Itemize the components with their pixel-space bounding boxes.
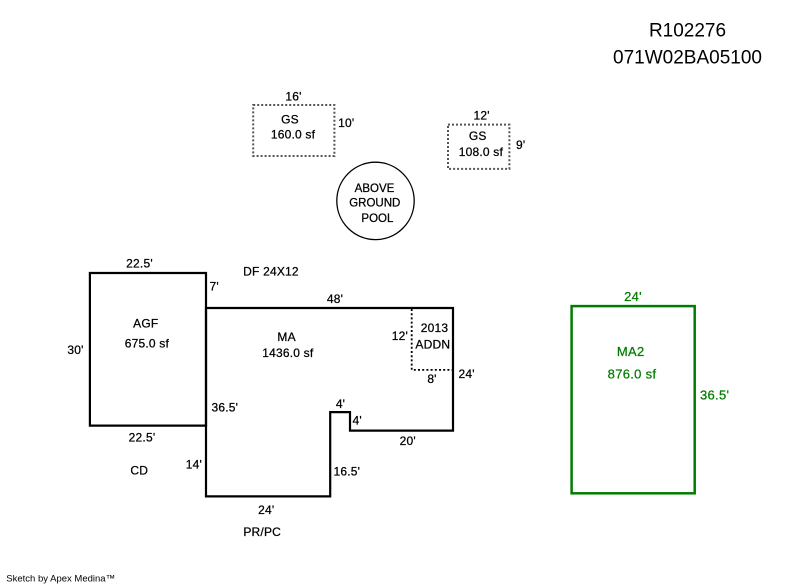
svg-text:GS: GS xyxy=(281,113,299,127)
svg-text:22.5': 22.5' xyxy=(126,257,153,271)
svg-text:4': 4' xyxy=(336,397,345,411)
svg-text:876.0 sf: 876.0 sf xyxy=(608,366,657,381)
above ground pool circle xyxy=(337,162,414,239)
svg-text:POOL: POOL xyxy=(361,213,394,225)
MA2 green building outline xyxy=(572,306,695,493)
svg-text:2013: 2013 xyxy=(421,321,449,335)
svg-text:ABOVE: ABOVE xyxy=(355,183,395,195)
svg-text:16.5': 16.5' xyxy=(333,465,360,479)
svg-text:48': 48' xyxy=(327,292,343,306)
svg-text:14': 14' xyxy=(186,458,202,472)
svg-text:R102276: R102276 xyxy=(649,21,726,42)
svg-text:36.5': 36.5' xyxy=(211,401,238,415)
svg-text:36.5': 36.5' xyxy=(700,388,729,403)
svg-text:30': 30' xyxy=(67,343,83,357)
svg-text:10': 10' xyxy=(338,116,354,130)
AGF garage outline xyxy=(90,273,206,426)
svg-text:675.0 sf: 675.0 sf xyxy=(125,336,170,350)
svg-text:22.5': 22.5' xyxy=(129,431,156,445)
svg-text:24': 24' xyxy=(459,367,475,381)
svg-text:Sketch by Apex Medina™: Sketch by Apex Medina™ xyxy=(6,574,115,585)
MA main area outline xyxy=(206,308,453,496)
svg-text:12': 12' xyxy=(473,109,489,123)
svg-text:108.0 sf: 108.0 sf xyxy=(459,145,504,159)
svg-text:8': 8' xyxy=(427,372,436,386)
svg-text:071W02BA05100: 071W02BA05100 xyxy=(613,47,762,68)
svg-text:GROUND: GROUND xyxy=(349,198,400,210)
svg-text:24': 24' xyxy=(258,503,274,517)
svg-text:MA: MA xyxy=(277,330,295,344)
2013 addition dotted boundary xyxy=(412,309,453,370)
svg-text:4': 4' xyxy=(353,414,362,428)
svg-text:20': 20' xyxy=(400,434,416,448)
svg-text:7': 7' xyxy=(210,280,219,294)
svg-text:GS: GS xyxy=(469,129,487,143)
svg-text:MA2: MA2 xyxy=(617,344,645,359)
svg-text:PR/PC: PR/PC xyxy=(243,525,281,539)
svg-text:24': 24' xyxy=(624,289,642,304)
svg-text:160.0 sf: 160.0 sf xyxy=(271,128,316,142)
svg-text:AGF: AGF xyxy=(133,316,158,330)
svg-text:DF 24X12: DF 24X12 xyxy=(243,265,299,279)
svg-text:16': 16' xyxy=(285,89,301,103)
svg-text:1436.0 sf: 1436.0 sf xyxy=(262,346,314,360)
svg-text:9': 9' xyxy=(516,138,525,152)
GS shed 1 dashed outline xyxy=(253,105,334,156)
svg-text:12': 12' xyxy=(392,329,408,343)
svg-text:CD: CD xyxy=(130,464,148,478)
svg-text:ADDN: ADDN xyxy=(415,338,450,352)
GS shed 2 dashed outline xyxy=(448,125,509,169)
